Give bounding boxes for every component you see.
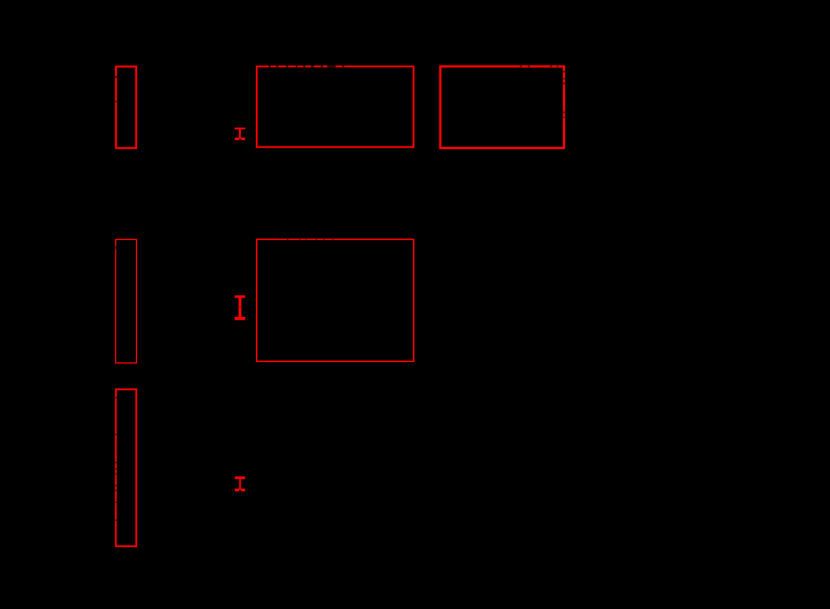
box F row3 left tall rect: [116, 389, 136, 546]
box B row1 middle rect: [257, 66, 414, 147]
notches: black text overlapping borders: [269, 66, 344, 68]
glow understrokes (soft spill emulating downscale): [116, 66, 564, 546]
notches on box A left border: [115, 76, 117, 78]
glyph I3 row3 I-beam: [235, 477, 245, 492]
glyph I2 row2 I-beam: [235, 296, 245, 320]
box D row2 middle rect: [257, 239, 414, 361]
notch on glyph I3 bottom bar: [239, 490, 241, 492]
notches on box C top border: [520, 65, 522, 67]
notch on box E left border: [115, 246, 117, 249]
notches on box C right border: [563, 71, 565, 73]
box E row2 left tall rect: [116, 239, 137, 363]
notches on box F left border: [115, 397, 117, 398]
box C row1 right rect: [440, 66, 564, 148]
faint dim on glyph I2 stem: [239, 307, 242, 308]
notches on box B top border: [269, 66, 271, 68]
glyph I1 row1 I-beam: [235, 128, 245, 140]
notch on glyph I1 bottom bar: [239, 139, 241, 141]
notches on box D top border: [287, 239, 289, 241]
box A row1 left tall rect: [116, 67, 136, 149]
